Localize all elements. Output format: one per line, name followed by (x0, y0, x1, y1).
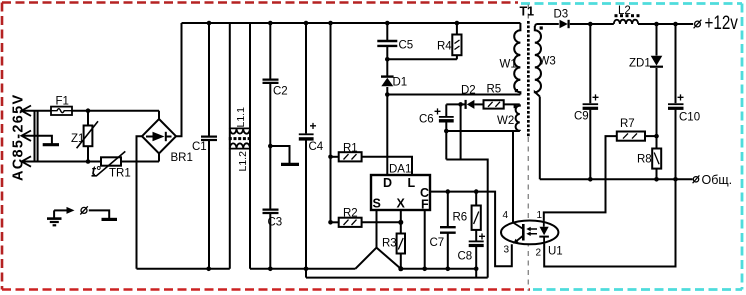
svg-text:C10: C10 (679, 112, 700, 124)
svg-text:L: L (408, 176, 416, 190)
svg-text:+: + (434, 105, 441, 119)
svg-text:+: + (592, 91, 599, 105)
svg-text:D3: D3 (554, 9, 569, 21)
svg-text:L1.1: L1.1 (235, 107, 247, 128)
svg-text:R3: R3 (382, 238, 397, 250)
svg-text:D2: D2 (461, 85, 476, 97)
svg-text:C9: C9 (574, 111, 589, 123)
svg-text:U1: U1 (548, 246, 563, 258)
svg-text:C1: C1 (192, 141, 207, 153)
svg-text:R7: R7 (620, 118, 635, 130)
svg-text:C7: C7 (430, 237, 445, 249)
svg-text:R6: R6 (453, 212, 468, 224)
svg-text:C3: C3 (268, 217, 283, 229)
svg-text:D: D (383, 176, 392, 190)
svg-text:1: 1 (537, 210, 543, 221)
svg-text:L1.2: L1.2 (237, 151, 249, 172)
svg-text:W2: W2 (497, 115, 514, 127)
svg-text:Z1: Z1 (71, 133, 84, 145)
svg-text:+: + (310, 119, 317, 133)
svg-text:F: F (421, 198, 429, 212)
svg-text:C5: C5 (399, 40, 414, 52)
svg-text:BR1: BR1 (171, 152, 193, 164)
svg-text:+: + (479, 230, 486, 244)
svg-text:2: 2 (536, 248, 542, 259)
svg-text:R1: R1 (343, 143, 358, 155)
svg-text:+12v: +12v (705, 11, 739, 33)
svg-text:TR1: TR1 (109, 168, 131, 180)
svg-text:R8: R8 (637, 154, 652, 166)
svg-text:W3: W3 (539, 56, 556, 68)
svg-text:T1: T1 (520, 5, 535, 19)
svg-text:D1: D1 (393, 77, 408, 89)
svg-text:ZD1: ZD1 (629, 58, 651, 70)
svg-text:R4: R4 (437, 41, 452, 53)
svg-text:R2: R2 (343, 208, 358, 220)
svg-text:3: 3 (504, 245, 510, 256)
svg-text:4: 4 (503, 210, 509, 221)
svg-text:t°: t° (92, 164, 102, 178)
svg-text:W1: W1 (500, 59, 517, 71)
svg-text:C4: C4 (309, 141, 324, 153)
svg-text:AC85-265V: AC85-265V (11, 94, 27, 181)
svg-text:DA1: DA1 (389, 164, 411, 176)
svg-text:F1: F1 (56, 96, 69, 108)
svg-text:S: S (373, 197, 381, 211)
svg-text:X: X (397, 197, 406, 211)
svg-text:L2: L2 (618, 5, 631, 17)
svg-text:C2: C2 (273, 86, 288, 98)
svg-text:R5: R5 (487, 84, 502, 96)
svg-text:C8: C8 (458, 251, 473, 263)
svg-text:+: + (677, 91, 684, 105)
svg-text:Общ.: Общ. (702, 173, 733, 187)
svg-text:C6: C6 (419, 114, 434, 126)
